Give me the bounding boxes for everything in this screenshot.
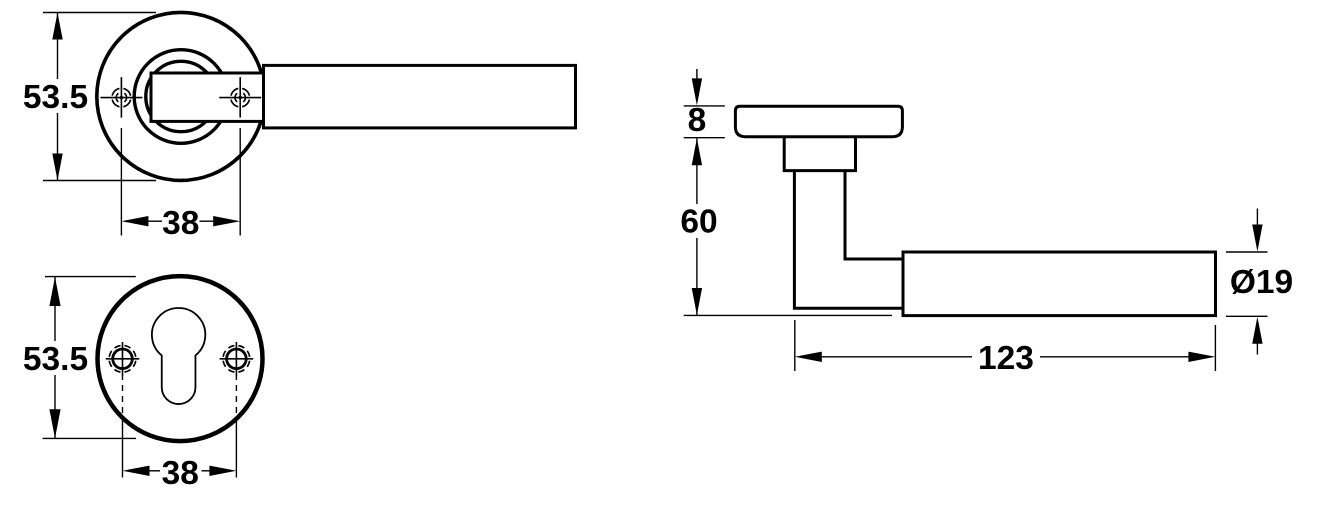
- svg-text:8: 8: [688, 102, 707, 139]
- svg-text:38: 38: [162, 205, 199, 242]
- dimension 38 (front view): [121, 128, 240, 236]
- dimension 53.5 (escutcheon): [43, 277, 137, 439]
- extension line bottom: [43, 180, 156, 182]
- screw target right (front view): [219, 77, 261, 118]
- dimension 38 (escutcheon): [123, 374, 237, 478]
- arrowheads 38 (escutcheon): [123, 466, 237, 476]
- arrowheads 123 (side): [795, 352, 1216, 362]
- extension line top: [43, 12, 156, 14]
- euro profile cylinder hole: [152, 308, 205, 404]
- svg-text:53.5: 53.5: [23, 341, 88, 378]
- rose outer circle: [97, 12, 265, 180]
- svg-text:60: 60: [680, 203, 717, 240]
- dimension 53.5 (front view): [43, 13, 156, 181]
- svg-text:53.5: 53.5: [23, 79, 88, 116]
- arrowheads 53.5 (front): [52, 13, 62, 181]
- dimension 60 (side view): [684, 138, 892, 315]
- rose ring outer circle: [134, 50, 228, 144]
- lever neck rectangle: [151, 73, 264, 121]
- svg-text:38: 38: [162, 455, 199, 492]
- dimension 8 (side view): [684, 69, 725, 138]
- grip rectangle: [903, 252, 1216, 316]
- collar below rose: [784, 137, 855, 171]
- lever grip rectangle: [264, 65, 576, 128]
- screw hole left (escutcheon): [106, 342, 140, 375]
- escutcheon circle: [98, 276, 263, 441]
- svg-text:123: 123: [978, 340, 1034, 377]
- arrowheads 8 (side): [692, 78, 702, 165]
- screw target left (front view): [100, 77, 142, 118]
- arrowhead 60 bottom (side): [692, 288, 702, 315]
- arrowheads 38 (front): [121, 216, 240, 226]
- arrowheads 53.5 (escutcheon): [49, 277, 60, 438]
- dimension 123 (side view): [795, 320, 1216, 371]
- dimension diameter 19 (side view): [1226, 209, 1268, 355]
- screw hole right (escutcheon): [220, 342, 254, 375]
- rose side profile: [735, 106, 902, 137]
- rose ring inner circle: [146, 61, 216, 131]
- svg-text:Ø19: Ø19: [1230, 264, 1293, 301]
- dim line segments: [57, 13, 59, 80]
- arrowheads diameter 19 (side): [1252, 225, 1262, 344]
- neck tube and bend: [794, 171, 903, 309]
